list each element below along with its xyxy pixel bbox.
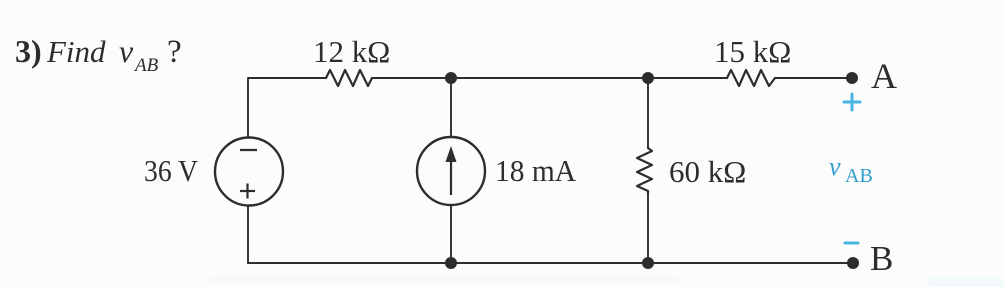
faint bottom artifact grey right [788,278,892,287]
node dot bottom-middle [445,257,457,269]
terminal A dot [846,72,858,84]
wire: middle branch bottom [450,205,452,263]
wire: bottom horizontal [248,262,853,264]
node dot top-middle [445,72,457,84]
current source I1 circle [417,137,485,205]
svg-text:18 mA: 18 mA [495,153,577,188]
resistor R2 60k vertical zigzag [637,148,652,193]
wire: top right segment to A [775,77,852,79]
svg-text:AB: AB [133,55,159,76]
svg-text:60 kΩ: 60 kΩ [669,154,746,189]
wire: middle branch top [450,78,452,137]
node dot bottom-right [642,257,654,269]
resistor R1 12k zigzag [326,70,372,86]
resistor R3 15k zigzag [727,70,775,86]
svg-text:15 kΩ: 15 kΩ [714,34,791,69]
current source arrow [450,158,452,195]
svg-text:v: v [119,33,134,69]
voltage source V1 circle [215,138,283,206]
svg-text:Find: Find [46,34,106,69]
wire: left branch bottom [247,206,249,263]
svg-text:?: ? [167,34,182,70]
wire: 60k branch top [647,78,649,148]
wire: 60k branch bottom [647,193,649,263]
terminal B dot [847,257,859,269]
svg-text:A: A [871,56,897,96]
svg-text:12 kΩ: 12 kΩ [313,34,390,69]
svg-text:B: B [870,239,893,278]
minus sign terminal B (cyan) [845,242,858,245]
voltage source plus sign [240,184,255,199]
faint bottom artifact grey smudge [210,276,680,284]
plus sign terminal A (cyan) [844,94,860,110]
svg-text:v: v [829,152,841,181]
svg-text:36 V: 36 V [144,153,199,188]
node dot top-right [642,72,654,84]
wire: left branch top + top-left horizontal segment [248,78,326,137]
svg-text:3): 3) [15,33,42,69]
faint bottom artifact cyan smudge [928,277,1004,287]
voltage source minus sign [240,149,257,151]
wire: top middle segment [372,77,727,79]
svg-text:AB: AB [845,165,873,187]
